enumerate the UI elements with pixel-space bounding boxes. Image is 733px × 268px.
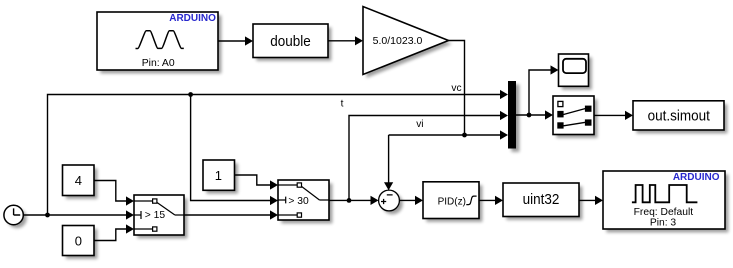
svg-text:out.simout: out.simout: [648, 108, 710, 125]
svg-text:Pin: 3: Pin: 3: [650, 218, 677, 229]
svg-text:PID(z): PID(z): [438, 196, 466, 207]
svg-text:> 15: > 15: [145, 210, 166, 221]
svg-text:1: 1: [215, 168, 222, 183]
svg-text:Freq: Default: Freq: Default: [634, 207, 694, 218]
svg-text:vc: vc: [451, 83, 461, 94]
svg-text:double: double: [270, 33, 311, 50]
svg-text:vi: vi: [416, 119, 423, 130]
svg-text:> 30: > 30: [288, 196, 309, 207]
svg-text:5.0/1023.0: 5.0/1023.0: [373, 35, 423, 47]
svg-text:4: 4: [75, 173, 82, 188]
svg-text:ARDUINO: ARDUINO: [169, 13, 216, 24]
svg-text:ARDUINO: ARDUINO: [673, 172, 720, 183]
svg-text:0: 0: [75, 233, 82, 248]
svg-text:Pin: A0: Pin: A0: [142, 58, 175, 69]
svg-text:uint32: uint32: [523, 192, 560, 209]
svg-text:t: t: [341, 99, 344, 110]
